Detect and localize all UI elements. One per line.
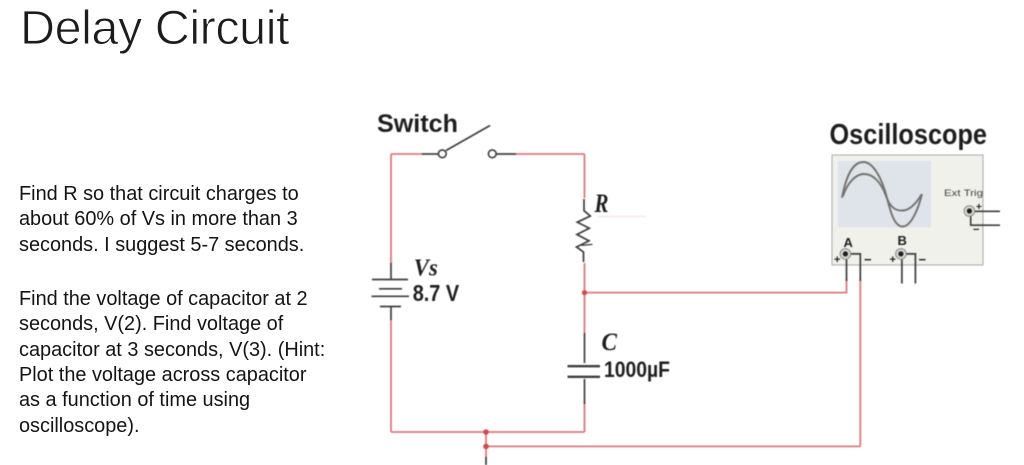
svg-text:−: −: [919, 252, 927, 267]
svg-text:C: C: [602, 329, 618, 356]
svg-text:+: +: [890, 254, 896, 266]
svg-text:1000µF: 1000µF: [604, 357, 670, 382]
svg-text:−: −: [973, 224, 979, 236]
svg-text:B: B: [898, 233, 907, 248]
svg-text:Switch: Switch: [377, 110, 458, 138]
svg-text:Ext Trig: Ext Trig: [944, 188, 983, 199]
svg-text:Oscilloscope: Oscilloscope: [830, 119, 988, 151]
svg-text:Vs: Vs: [414, 254, 438, 281]
svg-text:R: R: [594, 189, 609, 218]
svg-text:−: −: [864, 252, 872, 267]
svg-text:A: A: [844, 235, 854, 250]
svg-text:+: +: [834, 254, 840, 266]
svg-text:8.7 V: 8.7 V: [413, 280, 460, 306]
svg-text:+: +: [976, 202, 982, 213]
